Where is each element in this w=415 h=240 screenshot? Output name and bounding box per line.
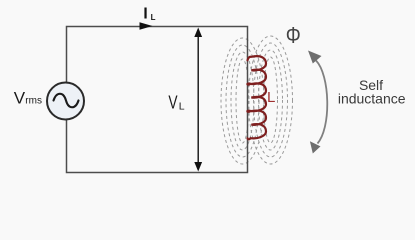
svg-text:V: V: [14, 88, 26, 107]
svg-text:inductance: inductance: [338, 90, 406, 106]
svg-text:L: L: [267, 89, 275, 106]
svg-text:Φ: Φ: [286, 22, 301, 48]
svg-text:V: V: [168, 93, 177, 113]
svg-text:I: I: [143, 5, 147, 22]
svg-text:L: L: [179, 100, 185, 112]
svg-text:L: L: [151, 13, 156, 22]
svg-text:rms: rms: [25, 96, 42, 107]
